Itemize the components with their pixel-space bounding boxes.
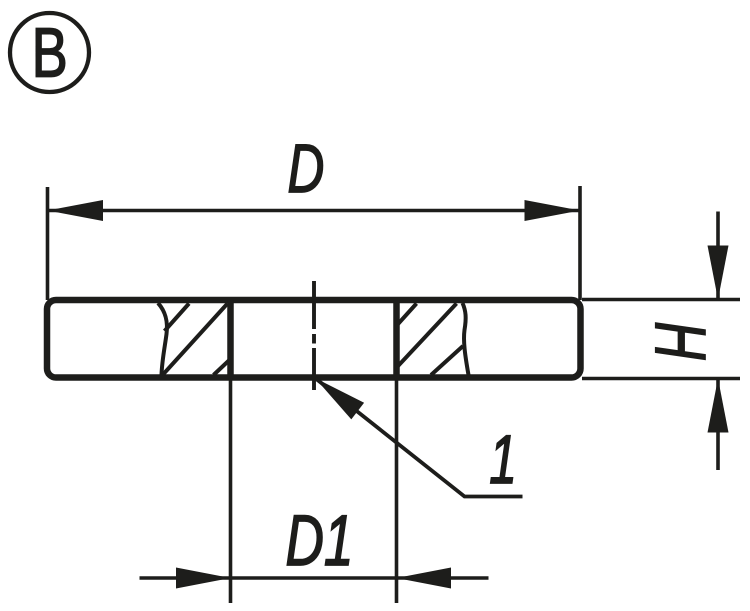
svg-text:D: D	[288, 129, 325, 206]
dimension D line	[48, 209, 581, 213]
svg-text:D1: D1	[286, 502, 354, 581]
dimension H line bottom	[716, 379, 720, 471]
dimension H line top	[716, 212, 720, 300]
break line left	[158, 303, 167, 375]
dimension D arrowhead right	[525, 200, 581, 221]
dimension D1 line	[140, 576, 489, 580]
svg-text:H: H	[640, 321, 719, 360]
hole edge right	[393, 300, 400, 378]
dimension D1 extension line left	[229, 378, 233, 604]
leader arrowhead	[315, 378, 364, 419]
dimension H extension line top	[582, 298, 740, 302]
svg-text:1: 1	[489, 421, 517, 498]
dimension H arrowhead bottom	[708, 379, 729, 433]
hatching left	[163, 304, 231, 376]
washer body outline	[47, 300, 581, 378]
dimension D extension line left	[46, 187, 50, 300]
hatching right	[398, 304, 463, 376]
dimension D1 arrowhead right	[397, 568, 452, 589]
dimension H arrowhead top	[708, 246, 729, 300]
leader line for callout 1	[315, 378, 523, 497]
dimension D extension line right	[578, 186, 582, 300]
dimension D arrowhead left	[48, 200, 104, 221]
hole edge left	[227, 300, 234, 378]
dimension D1 extension line right	[395, 378, 399, 604]
view label circle B	[10, 13, 89, 92]
dimension D1 arrowhead left	[176, 568, 231, 589]
centerline (dash-dot)	[312, 281, 316, 390]
break line right	[463, 303, 469, 375]
svg-text:B: B	[32, 14, 68, 92]
dimension H extension line bottom	[582, 377, 740, 381]
